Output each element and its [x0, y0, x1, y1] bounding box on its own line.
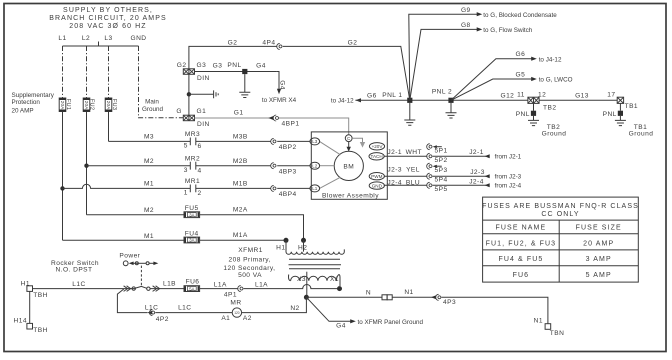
blower terminal TACH: [369, 153, 384, 160]
wire M1 row with hop: [63, 184, 191, 188]
motor BM: [334, 151, 363, 180]
wire L3 vertical: [108, 112, 110, 142]
wire between DIN terminals: [188, 74, 190, 115]
svg-text:BRANCH CIRCUIT, 20 AMPS: BRANCH CIRCUIT, 20 AMPS: [49, 15, 167, 22]
svg-text:G13: G13: [575, 93, 589, 100]
wire C to motor with arrow: [348, 142, 350, 148]
svg-text:FU1, FU2, & FU3: FU1, FU2, & FU3: [486, 240, 557, 247]
wire G13: [539, 99, 617, 101]
svg-text:4BP4: 4BP4: [279, 191, 297, 198]
svg-text:FU6: FU6: [513, 272, 530, 279]
wire M1A: [200, 239, 286, 241]
svg-text:GND: GND: [372, 183, 383, 188]
svg-text:L1: L1: [58, 35, 66, 42]
contact MR2: [184, 156, 202, 175]
connector 4P3 with arrow: [431, 295, 436, 299]
svg-text:L1A: L1A: [214, 281, 227, 288]
splice N/N1: [382, 295, 392, 300]
blower terminal +20V: [369, 143, 384, 150]
svg-text:X3: X3: [297, 276, 306, 283]
svg-text:1: 1: [184, 190, 188, 197]
svg-text:M3: M3: [144, 134, 154, 141]
wire L1A to XFMR X1 (with hop over X3): [244, 285, 340, 289]
wire PNL to earth: [244, 74, 246, 92]
svg-text:TBN: TBN: [550, 330, 565, 337]
wire to blower L3: [277, 140, 310, 142]
connector 5P1 (floating): [427, 144, 432, 150]
svg-text:MR3: MR3: [185, 131, 200, 138]
node junction on G vertical: [187, 92, 191, 96]
svg-text:20 AMP: 20 AMP: [12, 107, 34, 114]
svg-text:Ground: Ground: [142, 106, 164, 113]
wire G8: [410, 29, 477, 100]
connector 5P3 (floating): [427, 163, 432, 169]
svg-text:11: 11: [517, 91, 525, 98]
svg-text:L2: L2: [312, 164, 318, 169]
svg-text:12: 12: [538, 91, 546, 98]
node H1: [284, 238, 289, 243]
svg-text:PNL 2: PNL 2: [432, 88, 452, 95]
svg-text:G3: G3: [197, 62, 207, 69]
svg-text:YEL: YEL: [406, 167, 420, 174]
svg-text:from J2-4: from J2-4: [495, 183, 522, 190]
contact MR1: [184, 178, 202, 197]
svg-text:G2: G2: [348, 39, 358, 46]
svg-text:N: N: [366, 290, 371, 297]
wire FU6 to 4P1: [200, 288, 239, 290]
svg-text:J2-3: J2-3: [470, 169, 485, 176]
svg-text:2: 2: [197, 190, 201, 197]
connector 5P4: [427, 173, 432, 179]
svg-text:J2-4: J2-4: [469, 179, 484, 186]
rocker switch pole 1: [124, 286, 160, 292]
svg-text:M1B: M1B: [233, 181, 248, 188]
svg-text:Ground: Ground: [542, 131, 567, 138]
wire L1 drop (dash-dot): [62, 46, 64, 98]
svg-text:FU1: FU1: [65, 99, 71, 110]
svg-text:G: G: [176, 108, 182, 115]
svg-text:5P1: 5P1: [435, 147, 448, 154]
terminal H1 TBH: [21, 280, 48, 299]
wire PNL to earth TB1: [619, 116, 621, 121]
svg-text:N.O. DPST: N.O. DPST: [55, 266, 92, 273]
svg-text:20A: 20A: [60, 101, 65, 110]
svg-text:WHT: WHT: [406, 149, 422, 156]
wire G6 right: [451, 59, 532, 101]
svg-text:G5: G5: [516, 72, 526, 79]
svg-text:G6: G6: [367, 92, 377, 99]
terminal PNL (panel) on G3: [242, 69, 247, 74]
svg-text:M2B: M2B: [233, 158, 248, 165]
svg-text:120: 120: [234, 311, 240, 315]
wire switch to FU6: [150, 288, 184, 290]
wire M2A row: [87, 214, 185, 216]
svg-text:J2-1: J2-1: [469, 149, 484, 156]
svg-text:N1: N1: [534, 317, 543, 324]
connector 4BP3: [271, 163, 276, 169]
svg-text:M1: M1: [144, 181, 154, 188]
svg-text:FUSES ARE BUSSMAN FNQ-R CLASS: FUSES ARE BUSSMAN FNQ-R CLASS: [482, 203, 639, 210]
svg-text:G3: G3: [213, 62, 223, 69]
wire to chassis stub: [189, 93, 213, 95]
wire J2-3 from: [433, 175, 486, 177]
wire PNL to earth TB2: [533, 116, 535, 121]
chassis ground (sideways): [214, 90, 219, 98]
svg-text:L1C: L1C: [72, 281, 85, 288]
svg-text:DIN: DIN: [197, 75, 210, 82]
svg-text:Blower Assembly: Blower Assembly: [322, 193, 379, 200]
XFMR1 note: [223, 247, 275, 279]
secondary winding: [291, 276, 337, 281]
svg-text:BM: BM: [343, 163, 354, 170]
terminal PNL 1: [407, 98, 412, 103]
svg-text:5P3: 5P3: [435, 167, 448, 174]
node junction L2/M2: [84, 164, 88, 168]
svg-text:+20V: +20V: [372, 144, 384, 149]
fuse FU4: [184, 230, 200, 243]
wire GND drop (dash-dot): [139, 46, 184, 118]
wire N: [306, 296, 382, 298]
rocker actuator: [123, 261, 158, 266]
fuse table: [482, 197, 639, 282]
svg-text:120 Secondary,: 120 Secondary,: [223, 265, 275, 272]
wire N1 to TBN: [441, 297, 548, 323]
fuse FU5: [184, 205, 200, 218]
svg-text:MR: MR: [230, 299, 241, 306]
wire M2B: [196, 165, 271, 167]
svg-text:G8: G8: [461, 22, 471, 29]
connector 4P2 with arrow: [147, 311, 152, 315]
svg-text:N1: N1: [404, 289, 413, 296]
svg-text:MR1: MR1: [185, 178, 200, 185]
svg-text:TB1: TB1: [625, 103, 638, 110]
connector 4P1: [238, 286, 243, 292]
svg-text:SUPPLY BY OTHERS,: SUPPLY BY OTHERS,: [63, 7, 153, 14]
svg-text:PNL: PNL: [603, 111, 617, 118]
svg-text:500 VA: 500 VA: [238, 272, 262, 279]
svg-text:CC ONLY: CC ONLY: [541, 211, 579, 218]
wire M3B: [196, 140, 271, 142]
svg-text:Protection: Protection: [12, 99, 41, 106]
svg-text:N2: N2: [290, 305, 299, 312]
svg-text:FU5: FU5: [185, 205, 199, 212]
svg-text:TB2: TB2: [543, 105, 556, 112]
svg-text:4: 4: [197, 167, 201, 174]
fuse FU1: [59, 98, 71, 112]
wire M2 row: [87, 165, 191, 167]
svg-text:FU6: FU6: [186, 278, 200, 285]
svg-text:DIN: DIN: [197, 121, 210, 128]
wire TB2 to PNL: [533, 103, 535, 110]
wire H1 to H14: [29, 291, 31, 323]
ground earth PNL 2: [446, 113, 457, 118]
svg-text:3A: 3A: [189, 212, 194, 217]
svg-text:5 AMP: 5 AMP: [586, 272, 612, 279]
gray arrow from C: [352, 138, 362, 142]
wire G4 down arrow to XFMR X4: [256, 62, 296, 104]
blower assembly box: [311, 132, 387, 199]
supplementary protection note: [12, 92, 55, 115]
terminal G/G1 DIN: [176, 108, 209, 128]
svg-text:C: C: [347, 136, 351, 141]
wire G6 to J4-12 arrow: [355, 98, 361, 102]
svg-text:TBH: TBH: [33, 327, 48, 334]
wire PWM J2-3: [384, 175, 428, 177]
svg-text:G1: G1: [197, 108, 207, 115]
svg-text:L3: L3: [312, 139, 318, 144]
svg-text:4BP2: 4BP2: [279, 144, 297, 151]
svg-text:to J4-12: to J4-12: [331, 97, 354, 104]
svg-text:208 VAC 3Ø 60 HZ: 208 VAC 3Ø 60 HZ: [69, 23, 146, 30]
svg-text:FU4 & FU5: FU4 & FU5: [498, 256, 543, 263]
connector 5P5: [427, 182, 432, 188]
secondary leads: [289, 275, 291, 281]
wire to blower L1: [277, 187, 310, 189]
connector 4BP1 with arrow: [268, 116, 273, 120]
connector 5P2: [427, 153, 432, 159]
svg-text:G12: G12: [500, 93, 514, 100]
terminal TB2 (11/12): [517, 91, 556, 111]
svg-text:M1A: M1A: [233, 232, 248, 239]
svg-text:4BP3: 4BP3: [279, 169, 297, 176]
svg-text:TACH: TACH: [371, 154, 383, 159]
svg-text:J2-3: J2-3: [387, 167, 402, 174]
svg-text:FUSE SIZE: FUSE SIZE: [576, 224, 622, 231]
svg-text:4P3: 4P3: [443, 299, 456, 306]
svg-text:PWM: PWM: [371, 174, 382, 179]
svg-text:5P2: 5P2: [435, 157, 448, 164]
svg-text:L1A: L1A: [255, 281, 268, 288]
terminal PNL under TB2: [531, 111, 536, 116]
svg-text:6: 6: [197, 143, 201, 150]
svg-text:J2-4: J2-4: [387, 179, 402, 186]
svg-text:4P2: 4P2: [156, 316, 169, 323]
wire GND J2-4: [384, 184, 428, 186]
svg-text:L1C: L1C: [178, 305, 191, 312]
ground earth PNL 1: [404, 120, 415, 125]
svg-text:G2: G2: [177, 62, 187, 69]
wire J2-1 from: [433, 155, 486, 157]
svg-text:5: 5: [184, 143, 188, 150]
terminal C: [345, 135, 352, 142]
blower terminal L1: [310, 177, 341, 192]
wire G1 (gray) to blower C: [195, 117, 272, 119]
svg-text:Supplementary: Supplementary: [12, 92, 55, 99]
terminal TB1 (17): [607, 91, 638, 110]
svg-text:XFMR1: XFMR1: [238, 247, 263, 254]
svg-text:L1B: L1B: [163, 281, 176, 288]
svg-text:from J2-3: from J2-3: [495, 173, 522, 180]
wire M1B: [196, 187, 271, 189]
blower terminal GND: [369, 182, 384, 189]
connector 4BP2: [271, 138, 276, 144]
svg-text:to XFMR Panel Ground: to XFMR Panel Ground: [358, 319, 424, 326]
svg-text:M2: M2: [144, 158, 154, 165]
wire ground bus: [355, 99, 528, 101]
svg-text:BLU: BLU: [406, 179, 420, 186]
wire to blower L2: [277, 165, 310, 167]
svg-text:Main: Main: [145, 99, 159, 106]
svg-text:M1: M1: [144, 233, 154, 240]
wire TB1 to PNL: [619, 103, 621, 110]
terminal G2/G3 DIN: [177, 62, 210, 82]
node X3/N junction: [304, 295, 309, 300]
wire TACH J2-1: [384, 155, 428, 157]
fuse FU3: [105, 98, 117, 112]
svg-text:20 AMP: 20 AMP: [583, 240, 614, 247]
wire M3 row: [109, 140, 191, 142]
svg-text:20A: 20A: [106, 101, 111, 110]
svg-text:4BP1: 4BP1: [282, 121, 300, 128]
svg-text:M3B: M3B: [233, 134, 248, 141]
svg-text:MR2: MR2: [185, 156, 200, 163]
label Main Ground: [142, 99, 164, 113]
node X1 junction: [337, 286, 342, 291]
blower terminal L3: [310, 138, 341, 155]
svg-text:G1: G1: [234, 110, 244, 117]
svg-text:G2: G2: [228, 39, 238, 46]
svg-text:L1C: L1C: [145, 305, 158, 312]
fuse FU2: [83, 98, 94, 112]
svg-text:5P4: 5P4: [435, 177, 448, 184]
svg-text:L2: L2: [82, 35, 90, 42]
svg-text:Ground: Ground: [629, 131, 654, 138]
svg-text:H14: H14: [14, 317, 27, 324]
svg-text:from J2-1: from J2-1: [495, 154, 522, 161]
supply note text: [49, 7, 167, 30]
wire G9: [409, 14, 477, 100]
svg-text:G4: G4: [278, 80, 285, 90]
svg-text:L1: L1: [312, 186, 318, 191]
svg-text:G4: G4: [336, 323, 346, 330]
ground earth below PNL: [239, 92, 250, 97]
svg-text:to XFMR X4: to XFMR X4: [262, 97, 297, 104]
wire G2 to PNL 1: [283, 46, 410, 100]
svg-text:208 Primary,: 208 Primary,: [229, 257, 271, 264]
wire L3 drop (dash-dot): [108, 46, 110, 98]
wire N1: [392, 296, 434, 298]
relay coil MR: [221, 299, 252, 322]
svg-text:to G, Flow Switch: to G, Flow Switch: [483, 27, 532, 34]
svg-text:3 AMP: 3 AMP: [586, 256, 612, 263]
svg-text:4P4: 4P4: [262, 40, 275, 47]
core lines: [289, 258, 340, 260]
wire J2-4 from: [433, 184, 486, 186]
node H2: [301, 238, 306, 243]
wire L1C branch from switch: [117, 289, 147, 313]
svg-text:5P5: 5P5: [435, 186, 448, 193]
svg-text:to G, LWCO: to G, LWCO: [539, 77, 573, 84]
svg-text:H1: H1: [276, 244, 285, 251]
fuse FU6: [184, 278, 200, 291]
svg-text:L3: L3: [104, 35, 112, 42]
svg-text:FU4: FU4: [185, 230, 199, 237]
terminal PNL under TB1: [618, 111, 623, 116]
wire L1 vertical: [62, 112, 64, 241]
terminal TBN: [534, 317, 565, 337]
wire N2: [242, 297, 307, 312]
svg-text:PNL: PNL: [227, 62, 241, 69]
svg-text:20A: 20A: [84, 101, 89, 110]
svg-text:PNL: PNL: [516, 111, 530, 118]
svg-text:H1: H1: [21, 280, 30, 287]
switch linkage (dashed): [140, 266, 142, 287]
svg-text:M2: M2: [144, 207, 154, 214]
wire M1A row: [63, 239, 185, 241]
svg-text:M2A: M2A: [233, 207, 248, 214]
svg-text:H2: H2: [298, 244, 307, 251]
svg-text:FU3: FU3: [111, 99, 117, 110]
blower terminal PWM: [369, 173, 384, 180]
ground earth TB2: [528, 120, 539, 125]
svg-text:TBH: TBH: [33, 292, 48, 299]
svg-text:Power: Power: [119, 253, 140, 260]
wire PNL1 to earth: [409, 103, 411, 120]
svg-text:G6: G6: [516, 51, 526, 58]
wire G5: [451, 79, 532, 100]
svg-text:17: 17: [607, 91, 615, 98]
wire 4P2 to MR A1: [155, 312, 232, 314]
svg-text:3: 3: [184, 167, 188, 174]
wire G3 row: [195, 71, 277, 73]
svg-text:G9: G9: [461, 7, 471, 14]
node junction L1/M1: [60, 186, 64, 190]
ground earth TB1: [615, 120, 626, 125]
transformer XFMR1: [276, 238, 344, 295]
svg-text:5A: 5A: [189, 286, 194, 291]
svg-text:A2: A2: [243, 315, 252, 322]
svg-text:to G, Blocked Condensate: to G, Blocked Condensate: [483, 12, 557, 19]
wire PNL2 to earth: [450, 103, 452, 113]
svg-text:A1: A1: [221, 315, 230, 322]
svg-text:FUSE NAME: FUSE NAME: [496, 224, 547, 231]
svg-text:GND: GND: [130, 35, 146, 42]
svg-text:PNL 1: PNL 1: [382, 92, 402, 99]
primary tap H2 lead: [303, 240, 305, 251]
wire M2A: [200, 215, 304, 241]
connector 4P4: [277, 43, 282, 49]
svg-text:3A: 3A: [189, 238, 194, 243]
contact MR3: [184, 131, 202, 150]
wire L2 drop (dash-dot): [86, 46, 88, 98]
svg-text:J2-1: J2-1: [387, 149, 402, 156]
terminal H14 TBH: [14, 317, 48, 334]
blower terminal L2: [310, 162, 334, 169]
wire G2 up and right: [189, 46, 277, 68]
svg-text:X1: X1: [330, 276, 339, 283]
connector 4BP4: [271, 185, 276, 191]
wire L1C to switch: [33, 288, 136, 290]
svg-text:FU2: FU2: [88, 99, 94, 110]
svg-text:G4: G4: [256, 62, 266, 69]
wire L2 vertical: [86, 112, 88, 215]
svg-text:4P1: 4P1: [224, 291, 237, 298]
primary winding: [286, 240, 344, 254]
svg-text:to J4-12: to J4-12: [539, 56, 562, 63]
wire G4 to panel ground: [306, 297, 350, 321]
supply bracket: [63, 42, 139, 47]
